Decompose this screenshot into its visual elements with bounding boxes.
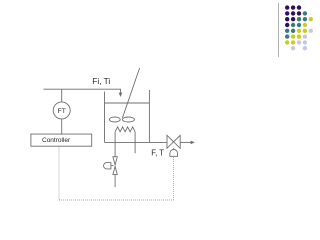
wire from feed pipe to FT — [61, 89, 63, 102]
feed arrowhead — [119, 93, 123, 97]
tank liquid level — [105, 102, 150, 104]
product valve V2 (horizontal) — [167, 135, 180, 148]
controller box — [31, 134, 92, 146]
steam valve V1 (vertical) — [113, 157, 117, 175]
svg-text:F, T: F, T — [151, 149, 164, 158]
signal rise to product valve actuator — [173, 157, 175, 200]
signal drop from controller — [58, 147, 60, 200]
tank bottom / outlet pipe — [105, 141, 168, 143]
control signal: controller to valves (dotted) — [59, 147, 174, 200]
signal run along bottom — [59, 199, 174, 201]
svg-text:FT: FT — [58, 108, 66, 115]
stirrer blade left — [109, 117, 120, 122]
actuator stem — [111, 165, 114, 167]
product valve actuator stem — [173, 148, 175, 149]
coil outlet pipe — [134, 132, 136, 154]
svg-text:Controller: Controller — [42, 137, 71, 144]
tank left wall — [104, 92, 106, 143]
instrument FT — [53, 102, 70, 119]
product valve actuator — [170, 150, 178, 157]
tank right wall — [148, 90, 150, 142]
wire from FT to controller — [61, 119, 63, 134]
pipe below steam valve — [114, 175, 116, 187]
outlet pipe — [180, 141, 191, 143]
decorative corner art (no labels): gray rule + dot grid — [279, 3, 313, 57]
steam valve actuator — [104, 163, 111, 169]
stirrer shaft — [122, 68, 139, 118]
stirrer blade right — [122, 117, 134, 122]
coil inlet pipe — [114, 132, 116, 157]
heating coil — [115, 127, 135, 132]
svg-text:Fi, Ti: Fi, Ti — [92, 76, 110, 86]
outlet arrowhead — [191, 141, 195, 145]
feed pipe — [44, 89, 121, 93]
